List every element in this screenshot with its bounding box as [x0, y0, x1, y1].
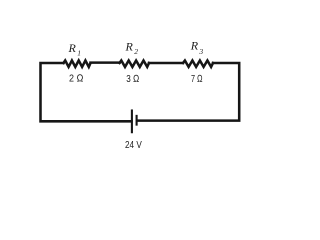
- svg-text:7 Ω: 7 Ω: [191, 74, 203, 85]
- svg-text:1: 1: [77, 49, 81, 58]
- svg-text:24 V: 24 V: [125, 140, 142, 151]
- wire: R1 to R2: [91, 61, 120, 64]
- svg-text:2: 2: [134, 47, 138, 56]
- svg-text:2 Ω: 2 Ω: [69, 73, 83, 84]
- battery B1 short plate: [136, 116, 138, 125]
- wire: right loop (top-right segment, right vertical, bottom-right segment): [137, 63, 239, 121]
- svg-text:R: R: [125, 39, 134, 53]
- svg-text:R: R: [190, 39, 199, 53]
- wire: left loop (bottom-left segment, left vertical, top-left segment): [41, 63, 132, 121]
- label R1: [68, 41, 82, 57]
- battery B1 long plate: [131, 111, 133, 133]
- svg-text:3 Ω: 3 Ω: [126, 74, 139, 85]
- wire: R2 to R3: [149, 62, 183, 65]
- resistor R1: [64, 61, 91, 67]
- label R3: [190, 39, 204, 56]
- label R2: [125, 39, 139, 56]
- svg-text:R: R: [68, 41, 77, 55]
- svg-text:3: 3: [198, 47, 203, 56]
- resistor R2: [120, 61, 150, 67]
- resistor R3: [183, 61, 213, 67]
